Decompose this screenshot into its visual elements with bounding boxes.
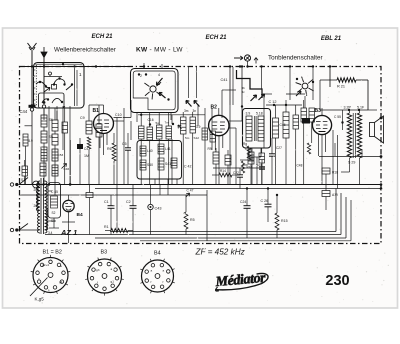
svg-text:C48: C48 <box>297 164 303 168</box>
svg-text:Rg: Rg <box>243 142 247 146</box>
svg-text:5.18: 5.18 <box>256 112 263 116</box>
svg-text:3.9: 3.9 <box>196 125 201 129</box>
svg-text:C9: C9 <box>80 116 85 120</box>
svg-text:ECH 21: ECH 21 <box>91 34 113 40</box>
svg-text:R5: R5 <box>190 218 195 222</box>
svg-text:g1: g1 <box>59 280 63 284</box>
svg-text:5.1F: 5.1F <box>357 106 365 110</box>
svg-text:C44: C44 <box>20 109 28 114</box>
svg-text:B1: B1 <box>93 108 100 114</box>
svg-text:C 47: C 47 <box>187 189 194 193</box>
svg-text:B4: B4 <box>77 212 83 218</box>
svg-text:5m: 5m <box>185 136 190 140</box>
svg-text:g3: g3 <box>96 268 100 272</box>
svg-text:C1: C1 <box>104 200 109 204</box>
svg-text:R9: R9 <box>208 147 212 151</box>
svg-text:g1: g1 <box>111 280 115 284</box>
svg-text:2f: 2f <box>34 204 37 208</box>
svg-text:f: f <box>151 280 152 284</box>
svg-text:2e: 2e <box>34 188 38 192</box>
svg-text:C2: C2 <box>126 200 131 204</box>
svg-text:KW - MW - LW: KW - MW - LW <box>136 47 183 54</box>
svg-text:3.2P: 3.2P <box>344 106 352 110</box>
svg-text:A19: A19 <box>332 193 338 197</box>
svg-text:C 26: C 26 <box>261 199 269 203</box>
svg-text:K,g5: K,g5 <box>35 297 45 302</box>
svg-text:EBL 21: EBL 21 <box>321 36 342 42</box>
svg-text:C 42: C 42 <box>184 165 191 169</box>
svg-text:C16: C16 <box>148 118 154 122</box>
svg-text:a: a <box>111 267 113 271</box>
svg-text:ECH 21: ECH 21 <box>205 35 227 41</box>
svg-text:C53: C53 <box>58 153 64 157</box>
svg-text:S3: S3 <box>51 219 55 223</box>
svg-text:Tonblendenschalter: Tonblendenschalter <box>268 55 323 62</box>
svg-text:L41: L41 <box>165 147 171 151</box>
svg-text:7m: 7m <box>165 121 170 125</box>
svg-text:L40: L40 <box>147 149 153 153</box>
svg-text:C24: C24 <box>240 200 246 204</box>
svg-text:5.9: 5.9 <box>28 139 33 143</box>
svg-text:C10: C10 <box>115 113 122 117</box>
svg-text:C22: C22 <box>233 171 239 175</box>
svg-text:C41: C41 <box>221 78 228 82</box>
svg-text:C27: C27 <box>276 146 282 150</box>
svg-text:S1: S1 <box>21 178 25 182</box>
svg-text:B4: B4 <box>154 251 161 257</box>
svg-text:C 55: C 55 <box>334 115 341 119</box>
svg-text:C28: C28 <box>242 163 248 167</box>
svg-text:S2: S2 <box>52 211 56 215</box>
svg-text:3m: 3m <box>184 109 189 113</box>
svg-text:R14: R14 <box>220 169 226 173</box>
svg-text:C4: C4 <box>84 147 88 151</box>
svg-text:R6: R6 <box>107 147 112 151</box>
svg-text:C 45: C 45 <box>51 190 58 194</box>
svg-text:S40: S40 <box>147 163 153 167</box>
svg-text:g2+4: g2+4 <box>42 263 49 267</box>
svg-text:B2: B2 <box>211 105 218 111</box>
svg-text:S 29: S 29 <box>348 161 355 165</box>
svg-text:3,4: 3,4 <box>48 231 53 235</box>
svg-text:f: f <box>39 277 40 281</box>
svg-text:ZF = 452 kHz: ZF = 452 kHz <box>195 248 245 257</box>
svg-text:R 21: R 21 <box>337 85 345 89</box>
svg-text:R18: R18 <box>332 171 338 175</box>
svg-text:Wellenbereichschalter: Wellenbereichschalter <box>54 47 116 54</box>
svg-text:1M: 1M <box>84 154 89 158</box>
svg-text:R15: R15 <box>281 219 288 223</box>
svg-text:2: 2 <box>140 74 142 78</box>
svg-text:3.9: 3.9 <box>246 112 251 116</box>
svg-text:S41: S41 <box>165 162 171 166</box>
svg-text:f: f <box>163 280 164 284</box>
svg-text:4: 4 <box>158 73 160 77</box>
svg-text:a: a <box>163 269 165 273</box>
svg-text:3n: 3n <box>193 109 197 113</box>
svg-text:a: a <box>151 269 153 273</box>
svg-text:C46: C46 <box>64 167 70 171</box>
svg-text:f: f <box>97 281 98 285</box>
svg-text:B1 = B2: B1 = B2 <box>43 250 62 256</box>
svg-text:R1: R1 <box>104 225 109 229</box>
svg-text:230: 230 <box>325 273 349 289</box>
svg-text:C 12: C 12 <box>269 100 277 104</box>
svg-text:S12: S12 <box>194 136 200 140</box>
svg-text:a: a <box>60 264 62 268</box>
svg-text:C43: C43 <box>155 207 162 211</box>
svg-text:B3: B3 <box>101 250 108 256</box>
